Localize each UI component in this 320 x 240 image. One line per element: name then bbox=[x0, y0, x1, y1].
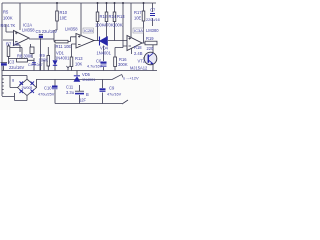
svg-text:R6 4.7K: R6 4.7K bbox=[1, 23, 16, 28]
svg-text:C5 22u/16V: C5 22u/16V bbox=[36, 29, 58, 34]
svg-text:C11: C11 bbox=[66, 85, 74, 90]
svg-text:g: g bbox=[12, 78, 14, 82]
svg-text:LM358: LM358 bbox=[65, 27, 78, 32]
svg-text:R13: R13 bbox=[117, 14, 125, 19]
svg-text:4.7u/16V: 4.7u/16V bbox=[87, 65, 103, 69]
svg-text:100K: 100K bbox=[39, 58, 49, 63]
svg-text:12F: 12F bbox=[79, 98, 87, 103]
svg-text:47u/16V: 47u/16V bbox=[107, 93, 122, 97]
svg-text:C9: C9 bbox=[109, 86, 115, 91]
svg-text:VD5: VD5 bbox=[82, 72, 91, 77]
svg-text:VT2: VT2 bbox=[138, 59, 146, 64]
svg-text:3.3u: 3.3u bbox=[66, 90, 74, 95]
svg-text:B: B bbox=[86, 92, 89, 97]
svg-text:22u/16V: 22u/16V bbox=[9, 65, 25, 70]
svg-text:1N4001: 1N4001 bbox=[82, 78, 95, 82]
svg-text:R17: R17 bbox=[134, 10, 142, 15]
svg-text:C10: C10 bbox=[44, 86, 52, 91]
svg-text:10K: 10K bbox=[75, 62, 83, 67]
svg-text:R7 10K: R7 10K bbox=[6, 42, 20, 47]
svg-text:10E: 10E bbox=[134, 16, 142, 21]
svg-text:R18: R18 bbox=[134, 45, 142, 50]
svg-text:C7: C7 bbox=[150, 8, 156, 13]
svg-text:IC2B: IC2B bbox=[84, 28, 93, 33]
svg-text:R10: R10 bbox=[60, 10, 68, 15]
svg-text:LM380: LM380 bbox=[146, 28, 159, 33]
svg-text:R12: R12 bbox=[100, 14, 108, 19]
svg-text:10E: 10E bbox=[60, 16, 68, 21]
svg-text:MJ15A12: MJ15A12 bbox=[130, 66, 148, 71]
svg-text:R14: R14 bbox=[109, 14, 117, 19]
svg-text:LM358: LM358 bbox=[22, 28, 35, 33]
svg-text:R5: R5 bbox=[3, 10, 9, 15]
svg-text:R8 300K: R8 300K bbox=[17, 54, 33, 59]
svg-text:100K: 100K bbox=[113, 23, 123, 28]
svg-text:470u/25V: 470u/25V bbox=[38, 93, 55, 97]
svg-text:R11 10E: R11 10E bbox=[56, 44, 72, 49]
svg-text:220: 220 bbox=[147, 46, 155, 51]
svg-text:1N4001: 1N4001 bbox=[97, 51, 112, 56]
svg-text:o→+12V: o→+12V bbox=[123, 76, 139, 81]
svg-text:IC3A: IC3A bbox=[134, 28, 143, 33]
svg-text:1N4001: 1N4001 bbox=[55, 56, 70, 61]
svg-text:100K: 100K bbox=[3, 16, 13, 21]
svg-text:300K: 300K bbox=[118, 62, 128, 67]
svg-text:R19: R19 bbox=[146, 36, 154, 41]
svg-text:C6: C6 bbox=[96, 59, 102, 64]
svg-text:2.4B: 2.4B bbox=[134, 51, 143, 56]
svg-text:C4 0.047: C4 0.047 bbox=[28, 63, 43, 67]
svg-text:220u/16V: 220u/16V bbox=[146, 18, 160, 22]
svg-text:R13: R13 bbox=[75, 56, 83, 61]
svg-text:2W005: 2W005 bbox=[22, 86, 33, 90]
svg-text:C3: C3 bbox=[9, 60, 15, 65]
